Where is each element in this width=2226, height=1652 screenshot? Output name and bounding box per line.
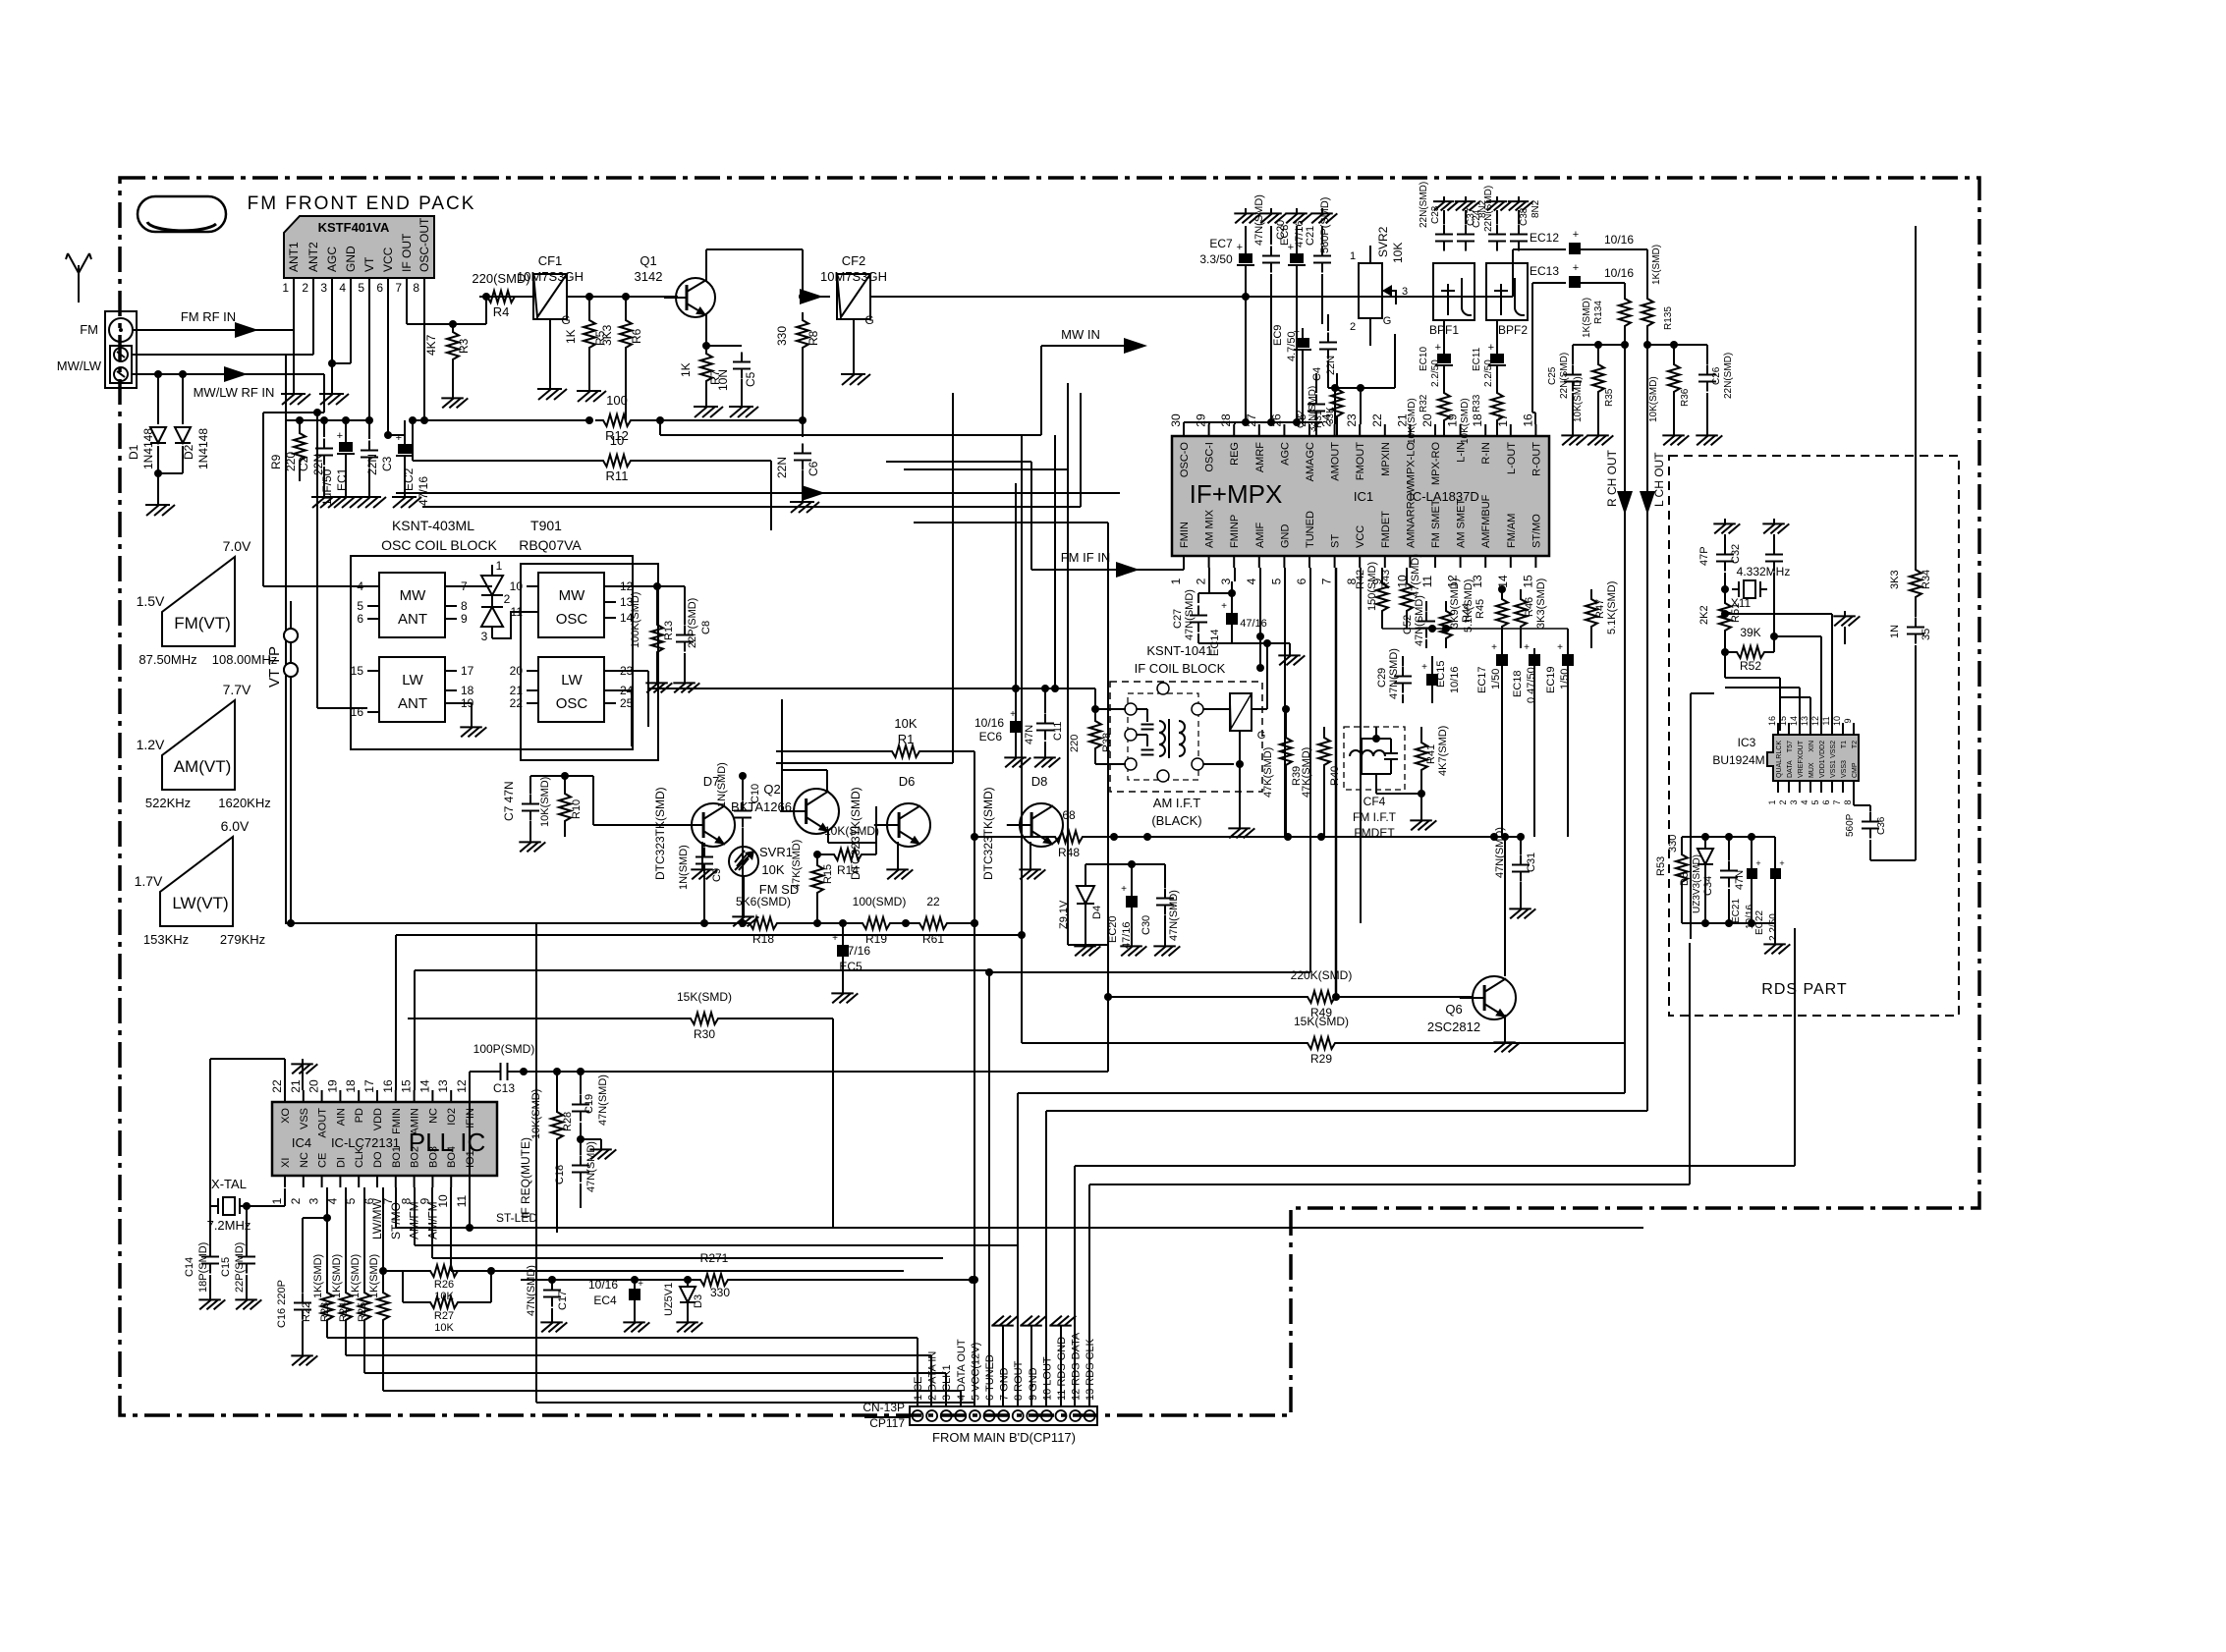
svg-text:AM MIX: AM MIX: [1204, 509, 1216, 548]
svg-text:47/16: 47/16: [1240, 618, 1267, 630]
svg-text:2.2/50: 2.2/50: [1768, 913, 1779, 941]
svg-text:C21: C21: [1305, 226, 1316, 246]
svg-text:2: 2: [1778, 799, 1788, 804]
svg-text:FM FRONT END PACK: FM FRONT END PACK: [248, 193, 476, 214]
svg-text:EC18: EC18: [1512, 670, 1524, 697]
svg-text:18: 18: [461, 684, 474, 697]
svg-text:LW(VT): LW(VT): [172, 894, 228, 912]
svg-text:R52: R52: [1740, 659, 1761, 673]
svg-text:2 DATA IN: 2 DATA IN: [927, 1351, 939, 1401]
resistor R30 15K(SMD): [408, 990, 833, 1041]
svg-text:3 CLK1: 3 CLK1: [941, 1364, 953, 1401]
svg-text:16: 16: [381, 1079, 395, 1093]
FM/MW-LW antenna jack: [57, 311, 137, 388]
svg-text:R8: R8: [807, 330, 820, 346]
pot SVR2 10K: [1350, 226, 1408, 334]
ec EC10 2.2/50: [1419, 320, 1453, 393]
wire MW IN: [660, 327, 1147, 435]
svg-text:6: 6: [1821, 799, 1831, 804]
svg-text:R10: R10: [571, 799, 583, 819]
border frame (dash-dot outline): [120, 178, 1979, 1415]
wire FMDET col: [1285, 568, 1361, 1001]
wire R9 rail: [286, 355, 369, 420]
svg-text:LW/MW: LW/MW: [370, 1198, 384, 1239]
label IF REQ(MUTE): [519, 1137, 532, 1218]
svg-text:ST/MO: ST/MO: [1530, 514, 1542, 548]
diode D2 1N4148: [175, 374, 210, 473]
capacitor C2 22N: [297, 416, 333, 491]
svg-text:+: +: [1755, 858, 1760, 868]
wire CLK1 line: [364, 1373, 946, 1406]
wire OSC pins right: [616, 582, 685, 599]
svg-text:MW: MW: [400, 587, 426, 604]
svg-text:IF REQ(MUTE): IF REQ(MUTE): [519, 1137, 532, 1218]
capacitor C3 22N: [361, 420, 394, 491]
resistor R19 100(SMD): [777, 895, 919, 946]
svg-text:560P(SMD): 560P(SMD): [1319, 197, 1331, 253]
svg-text:13: 13: [436, 1079, 450, 1093]
svg-text:AM SMET: AM SMET: [1456, 499, 1468, 548]
svg-text:BPF2: BPF2: [1498, 323, 1528, 337]
svg-text:22N(SMD): 22N(SMD): [1483, 186, 1494, 232]
svg-text:C18: C18: [554, 1165, 566, 1184]
svg-text:5 VCC(12V): 5 VCC(12V): [970, 1343, 981, 1401]
wire IC1 top feed: [1184, 418, 1322, 426]
resistor R3 4K7: [424, 324, 471, 408]
svg-text:G: G: [1257, 730, 1266, 742]
svg-text:3: 3: [1402, 286, 1408, 298]
svg-text:C7 47N: C7 47N: [502, 781, 516, 821]
ecap EC1 1uF/50: [320, 416, 355, 506]
wire L OUT col: [1046, 334, 1647, 1406]
svg-text:10K: 10K: [1391, 243, 1405, 263]
resistor R49 220K(SMD): [1108, 968, 1473, 1019]
svg-text:GND: GND: [344, 246, 358, 272]
wire R26 node: [491, 1270, 521, 1272]
grounds under caps: [311, 491, 421, 508]
grounds top RDS: [1713, 519, 1789, 550]
svg-text:15K(SMD): 15K(SMD): [677, 990, 732, 1004]
cap C17 47N(SMD): [526, 1265, 569, 1332]
coil LW ANT: [351, 657, 474, 722]
wire IO1 col: [469, 1090, 471, 1228]
op-amp IC4 PLL IC body: [272, 1102, 497, 1176]
cap C9 1N(SMD): [678, 843, 723, 923]
svg-text:22: 22: [270, 1079, 284, 1093]
svg-text:R135: R135: [1663, 306, 1674, 330]
RDS PART label: [1761, 981, 1847, 998]
wire LW OSC bottom pins: [616, 671, 648, 746]
coil MW OSC: [510, 573, 634, 637]
svg-text:22: 22: [510, 696, 524, 710]
svg-text:87.50MHz: 87.50MHz: [139, 652, 196, 667]
wire VCC rail: [384, 290, 392, 439]
resistor R39 47K(SMD): [1262, 705, 1303, 837]
svg-text:AMRF: AMRF: [1254, 442, 1266, 472]
svg-text:R CH OUT: R CH OUT: [1605, 449, 1619, 507]
svg-text:10K: 10K: [894, 716, 917, 731]
cap C20 47N(SMD): [1253, 194, 1287, 422]
cap C19 47N(SMD): [572, 1072, 609, 1143]
svg-text:PD: PD: [354, 1108, 365, 1123]
VT TP test points: [266, 629, 298, 688]
wire mid column B: [1068, 383, 1108, 997]
PLL top pins 22-12: [270, 1079, 476, 1138]
svg-text:13: 13: [1800, 716, 1809, 726]
svg-text:R34: R34: [1920, 570, 1932, 589]
wire TUNED route: [989, 568, 1310, 1406]
resistor R26 10K: [379, 1265, 495, 1302]
svg-text:C9: C9: [711, 868, 723, 882]
svg-text:EC17: EC17: [1476, 666, 1488, 693]
transistor D7 DTC323TK(SMD): [593, 774, 735, 880]
svg-text:18: 18: [344, 1079, 358, 1093]
ec EC13 10/16: [1530, 262, 1634, 424]
coil LW OSC: [510, 657, 634, 722]
svg-text:XO: XO: [280, 1108, 292, 1124]
cap C7 47N: [502, 776, 545, 852]
svg-text:C17: C17: [557, 1291, 569, 1310]
svg-text:5K6(SMD): 5K6(SMD): [736, 895, 791, 909]
svg-text:4K7(SMD): 4K7(SMD): [1437, 726, 1449, 776]
svg-text:C25: C25: [1547, 366, 1558, 385]
resistor R45 5.1K(SMD): [1463, 579, 1508, 648]
svg-text:C26: C26: [1711, 366, 1722, 385]
svg-text:VSS3: VSS3: [1841, 760, 1848, 778]
svg-text:C31: C31: [1526, 853, 1537, 872]
svg-text:2.2/50: 2.2/50: [1483, 359, 1494, 387]
svg-text:AMIF: AMIF: [1254, 522, 1266, 548]
svg-text:5: 5: [358, 281, 364, 295]
svg-text:47N(SMD): 47N(SMD): [1388, 648, 1400, 699]
svg-text:EC13: EC13: [1530, 264, 1559, 278]
ec EC6 10/16: [974, 483, 1030, 767]
cap C29 47N(SMD): [1376, 648, 1412, 703]
transistor Q2 BKTA1266: [731, 782, 839, 834]
svg-text:QUAL: QUAL: [1776, 759, 1783, 778]
svg-text:C6: C6: [807, 461, 820, 476]
svg-text:L-OUT: L-OUT: [1506, 442, 1518, 474]
svg-text:BO1: BO1: [391, 1146, 403, 1168]
wire DATA IN line: [346, 1355, 931, 1406]
svg-text:R14: R14: [837, 863, 859, 877]
svg-text:R27: R27: [434, 1310, 454, 1322]
resistor R47 5.1K(SMD): [1586, 581, 1618, 648]
svg-text:OSC-OUT: OSC-OUT: [417, 217, 431, 272]
svg-text:AMAGC: AMAGC: [1305, 442, 1316, 481]
svg-text:11: 11: [455, 1194, 469, 1207]
svg-text:+: +: [1221, 601, 1227, 612]
transistor Q6 2SC2812: [1427, 976, 1520, 1052]
svg-text:C34: C34: [1702, 876, 1714, 896]
svg-text:+: +: [1435, 342, 1441, 354]
svg-text:7 GND: 7 GND: [999, 1367, 1011, 1401]
cap C18 47N(SMD): [554, 1139, 597, 1208]
svg-text:3K3: 3K3: [600, 324, 614, 346]
svg-text:IF+MPX: IF+MPX: [1190, 479, 1283, 509]
C36 560P: [1845, 793, 1887, 860]
wire CF2 out: [870, 293, 1513, 301]
svg-text:1K(SMD): 1K(SMD): [350, 1254, 362, 1298]
wire C13 to right: [581, 993, 1112, 1072]
svg-text:RBQ07VA: RBQ07VA: [519, 537, 582, 553]
svg-text:BO3: BO3: [427, 1146, 439, 1168]
svg-text:3K9(SMD): 3K9(SMD): [1449, 578, 1461, 629]
svg-text:KSTF401VA: KSTF401VA: [318, 220, 390, 235]
svg-text:IF COIL BLOCK: IF COIL BLOCK: [1135, 661, 1226, 676]
ec EC7 3.3/50: [1199, 208, 1260, 422]
label ST-LED: [496, 1211, 537, 1225]
svg-text:11: 11: [1821, 716, 1831, 725]
svg-text:C14: C14: [184, 1257, 195, 1277]
svg-text:22P(SMD): 22P(SMD): [234, 1242, 246, 1293]
svg-text:1K(SMD): 1K(SMD): [1582, 298, 1592, 338]
svg-text:FM(VT): FM(VT): [174, 614, 231, 633]
svg-text:3: 3: [320, 281, 327, 295]
svg-text:2K2: 2K2: [1698, 605, 1710, 625]
svg-text:10: 10: [610, 433, 624, 448]
svg-text:VREF: VREF: [1798, 759, 1805, 778]
svg-text:1N: 1N: [1889, 625, 1901, 638]
cap C15 22P(SMD): [220, 1242, 261, 1310]
svg-text:R6: R6: [630, 328, 643, 344]
pot SVR1 10K FM SD: [729, 845, 799, 926]
svg-text:8: 8: [1843, 799, 1853, 804]
svg-text:R22: R22: [301, 1302, 312, 1322]
resistor R44 3K9(SMD): [1440, 578, 1473, 648]
svg-text:FMINP: FMINP: [1229, 515, 1241, 548]
svg-text:23: 23: [1345, 413, 1359, 427]
resistor R25 1K(SMD): [357, 1187, 389, 1391]
resistor R9 220: [269, 416, 306, 481]
svg-text:47/16: 47/16: [417, 476, 430, 506]
svg-text:2: 2: [302, 281, 308, 295]
svg-text:DTC323TK(SMD): DTC323TK(SMD): [653, 787, 667, 880]
svg-text:4.332MHz: 4.332MHz: [1737, 565, 1791, 578]
cap C31 47N(SMD): [1494, 827, 1537, 918]
RDS wires xtal to IC3: [1721, 610, 1832, 723]
svg-text:10K: 10K: [434, 1322, 454, 1334]
resistor R14 10K(SMD): [813, 824, 879, 877]
svg-text:ANT2: ANT2: [306, 242, 320, 272]
svg-text:EC12: EC12: [1530, 231, 1559, 245]
svg-text:R33: R33: [1472, 394, 1482, 413]
svg-text:6: 6: [357, 612, 363, 626]
graph FM(VT): [137, 538, 278, 667]
svg-text:+: +: [1779, 858, 1784, 868]
svg-text:GND: GND: [1279, 524, 1291, 549]
svg-text:IO2: IO2: [446, 1108, 458, 1126]
connector pins+labels: [913, 1332, 1097, 1421]
svg-text:+: +: [1557, 642, 1563, 653]
svg-text:15K(SMD): 15K(SMD): [1294, 1015, 1349, 1028]
svg-text:D2: D2: [182, 444, 195, 460]
ec EC18 0.47/50: [1512, 642, 1540, 837]
svg-text:D8: D8: [1031, 774, 1048, 789]
resistor R34 3K3: [1889, 530, 1932, 617]
svg-text:ST-LED: ST-LED: [496, 1211, 537, 1225]
logo capsule: [138, 196, 226, 232]
ec EC8 47/16: [1279, 208, 1311, 422]
wire BO3 long: [432, 1187, 943, 1258]
resistor R38 220: [1069, 688, 1126, 764]
svg-text:AGC: AGC: [1279, 442, 1291, 466]
svg-text:L CH OUT: L CH OUT: [1652, 452, 1666, 507]
resistor R42 150(SMD): [1355, 562, 1388, 629]
svg-text:EC10: EC10: [1419, 347, 1429, 371]
ground pin1: [281, 290, 310, 405]
svg-text:10M7S3GH: 10M7S3GH: [820, 269, 887, 284]
svg-text:10/16: 10/16: [1604, 266, 1634, 280]
svg-text:R134: R134: [1593, 301, 1604, 324]
wire R OUT col: [1018, 334, 1625, 1406]
svg-text:C30: C30: [1141, 915, 1152, 935]
resistor R52 39K: [1725, 589, 1780, 731]
svg-text:R41: R41: [1425, 744, 1437, 764]
svg-text:C29: C29: [1376, 668, 1388, 688]
svg-text:47K(SMD): 47K(SMD): [1262, 747, 1274, 798]
svg-text:CE: CE: [317, 1153, 329, 1168]
EC22 2.2/50: [1754, 837, 1785, 941]
svg-text:D6: D6: [899, 774, 916, 789]
svg-text:G: G: [561, 313, 570, 327]
svg-text:12 RDS DATA: 12 RDS DATA: [1071, 1332, 1083, 1401]
resistor R61 22: [912, 833, 978, 946]
svg-text:KSNT-403ML: KSNT-403ML: [392, 518, 474, 533]
ecap EC2 47/16: [388, 420, 430, 506]
svg-text:AMIN: AMIN: [410, 1108, 421, 1135]
svg-text:VSS2: VSS2: [1830, 741, 1837, 758]
svg-text:EC19: EC19: [1545, 666, 1557, 693]
svg-text:19: 19: [325, 1079, 339, 1093]
svg-text:UZ5V1: UZ5V1: [663, 1283, 675, 1316]
svg-text:15: 15: [1778, 716, 1788, 726]
OSC coil block outline KSNT-403ML: [351, 556, 633, 749]
svg-text:VT TP: VT TP: [266, 646, 283, 688]
svg-text:39K: 39K: [1740, 626, 1760, 639]
wire IF OUT step: [407, 290, 490, 328]
svg-text:13 RDS CLK: 13 RDS CLK: [1085, 1338, 1096, 1401]
svg-text:G: G: [1383, 315, 1392, 327]
svg-text:1620KHz: 1620KHz: [218, 796, 270, 810]
svg-text:22N: 22N: [775, 457, 789, 478]
svg-text:T57: T57: [1787, 741, 1794, 752]
wire VCC col: [971, 837, 978, 1406]
svg-text:C2: C2: [297, 456, 310, 471]
wire BO2 long: [415, 1187, 1018, 1245]
svg-text:R13: R13: [663, 621, 675, 640]
IF coil block titles: [1135, 643, 1226, 676]
svg-text:15: 15: [1521, 575, 1534, 588]
svg-text:150(SMD): 150(SMD): [1366, 562, 1378, 611]
svg-text:2SC2812: 2SC2812: [1427, 1019, 1480, 1034]
svg-text:BO4: BO4: [446, 1146, 458, 1168]
wire AMIF col: [1235, 568, 1264, 672]
resistor R7 1K: [679, 346, 722, 401]
svg-text:153KHz: 153KHz: [143, 932, 189, 947]
svg-text:21: 21: [510, 684, 524, 697]
resistor R13 100K(SMD): [630, 592, 675, 693]
wire gnd pin9: [1020, 1316, 1046, 1406]
ground CF2: [841, 368, 870, 385]
svg-text:MW IN: MW IN: [1061, 327, 1100, 342]
svg-text:VSS: VSS: [299, 1108, 310, 1129]
svg-text:RLCK: RLCK: [1776, 741, 1783, 759]
svg-text:OSC COIL BLOCK: OSC COIL BLOCK: [381, 537, 497, 553]
svg-text:7: 7: [1320, 578, 1334, 584]
svg-text:R23: R23: [319, 1302, 331, 1322]
svg-text:+: +: [1421, 662, 1427, 673]
wire long h 478: [904, 468, 1068, 470]
svg-text:R46: R46: [1524, 597, 1535, 617]
dashed box CF4: [1344, 727, 1405, 790]
svg-text:EC15: EC15: [1435, 660, 1447, 688]
svg-text:VSS1: VSS1: [1830, 760, 1837, 778]
ic IC3 BU1924M body: [1712, 735, 1859, 781]
IF coil inner dashed box: [1128, 693, 1198, 780]
wire VCC12V column: [536, 922, 974, 1403]
capacitor C5 10N: [706, 346, 757, 401]
svg-text:22N(SMD): 22N(SMD): [1723, 353, 1734, 399]
svg-text:Q2: Q2: [763, 782, 780, 797]
svg-text:DTC323TK(SMD): DTC323TK(SMD): [981, 787, 995, 880]
resistor R32 10K(SMD): [1407, 385, 1450, 444]
CF4 coil cap: [1350, 727, 1398, 774]
svg-text:R28: R28: [562, 1112, 574, 1131]
svg-text:1: 1: [270, 1197, 284, 1204]
svg-text:FMDET: FMDET: [1380, 511, 1392, 548]
svg-text:10/16: 10/16: [1449, 666, 1461, 693]
svg-text:1: 1: [496, 559, 503, 573]
svg-text:21: 21: [289, 1079, 303, 1093]
resistor R29 15K(SMD): [1022, 1015, 1625, 1066]
ceramic filter CF2 10M7S3GH: [820, 253, 887, 368]
svg-text:R32: R32: [1419, 394, 1429, 413]
svg-text:1K(SMD): 1K(SMD): [331, 1254, 343, 1298]
svg-text:3: 3: [1789, 799, 1799, 804]
RDS top rail: [1682, 833, 1775, 841]
svg-text:220: 220: [1069, 735, 1081, 752]
resistor R46 3K3(SMD): [1515, 578, 1547, 648]
cf G filter: [1230, 633, 1267, 742]
svg-text:R45: R45: [1475, 599, 1486, 619]
resistor R135 1K(SMD): [1642, 245, 1674, 334]
wire IC1 pin feeds: [1209, 568, 1568, 633]
svg-text:1/50: 1/50: [1559, 669, 1571, 689]
ceramic filter CF1 10M7S3GH: [517, 253, 584, 383]
wire RDS CLK route: [1089, 943, 1690, 1406]
svg-text:BO2: BO2: [410, 1146, 421, 1168]
svg-text:6: 6: [376, 281, 383, 295]
svg-text:28: 28: [1219, 413, 1233, 427]
svg-text:FROM MAIN B'D(CP117): FROM MAIN B'D(CP117): [932, 1430, 1076, 1445]
IC3 pins: [1767, 716, 1859, 805]
svg-text:22: 22: [926, 895, 940, 909]
wire zener rail: [1085, 863, 1165, 865]
RDS left wires: [1691, 693, 1714, 939]
svg-text:IF OUT: IF OUT: [400, 233, 414, 272]
ground pin3: [319, 290, 351, 405]
svg-text:NC: NC: [427, 1108, 439, 1124]
svg-text:15: 15: [351, 664, 364, 678]
svg-text:CF2: CF2: [842, 253, 866, 268]
resistor R12 100: [413, 393, 803, 443]
svg-text:14: 14: [1789, 716, 1799, 726]
svg-text:D1: D1: [127, 444, 140, 460]
resistor R22 1K(SMD): [301, 1187, 333, 1338]
svg-text:ANT1: ANT1: [287, 242, 301, 272]
svg-text:RDS PART: RDS PART: [1761, 981, 1847, 998]
